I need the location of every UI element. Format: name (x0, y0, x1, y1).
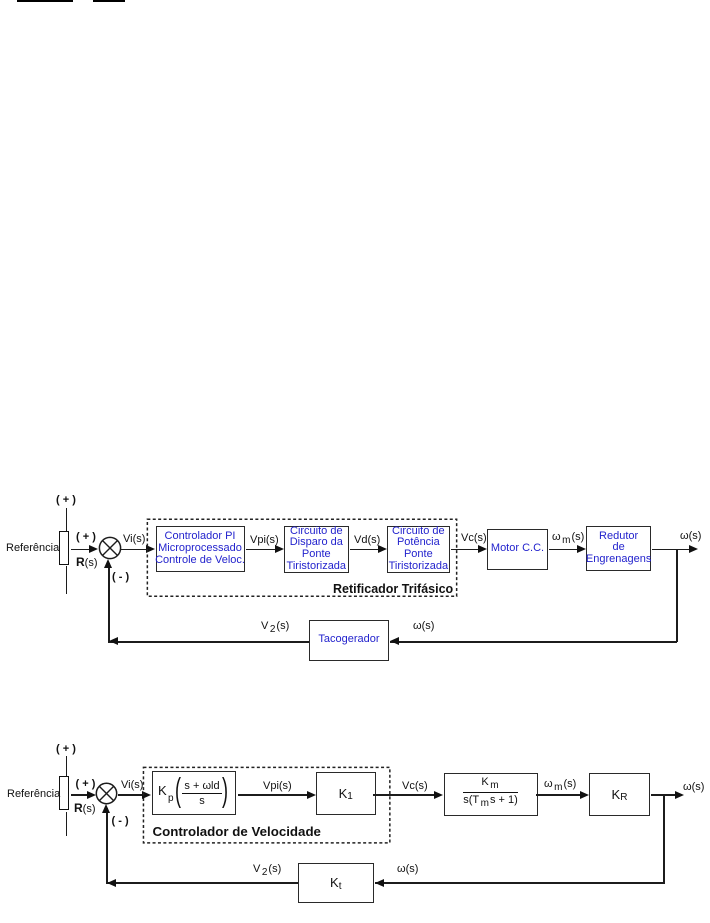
block Circuito Potencia D1 (387, 526, 451, 573)
label Referência D1 (6, 543, 59, 554)
summing junction D1 (98, 536, 122, 560)
potentiometer D2 (59, 776, 69, 810)
label R(s) D2 (74, 803, 96, 815)
label V2(s) D1 (261, 621, 289, 635)
label ( - ) D2 (112, 816, 129, 827)
label Retificador Trifasico D1 (333, 584, 453, 595)
wire sum to Kp D2 (118, 794, 144, 796)
wire feedback horizontal left D1 (108, 641, 309, 643)
wire feedback horizontal left D2 (106, 882, 298, 884)
block K1 D2 (316, 772, 377, 816)
label w(s) output D2 (683, 782, 704, 793)
wire sum to block1 D1 (121, 549, 147, 551)
potentiometer D1 (59, 531, 69, 565)
wire Kp-K1 D2 (238, 794, 311, 796)
wire Km-KR D2 (536, 794, 581, 796)
wire feedback horizontal right D1 (390, 641, 677, 643)
label Vpi(s) D1 (250, 535, 279, 546)
label ( + ) D2 (76, 779, 96, 790)
label Referência D2 (7, 789, 60, 800)
wire block3-motor D1 (451, 549, 478, 551)
wire feedback vertical left D2 (106, 808, 108, 883)
label Vi(s) D2 (121, 780, 143, 791)
label w(s) feedback D1 (413, 621, 434, 632)
block Controlador PI D1 (156, 526, 245, 572)
wire feedback horizontal right D2 (375, 882, 665, 884)
label (+) top D2 (56, 744, 76, 755)
wire feedback vertical right D2 (663, 794, 665, 883)
label w(s) output D1 (680, 531, 701, 542)
block Tacogerador D1 (309, 620, 389, 661)
top underline bar 2 (93, 0, 125, 2)
label V2(s) D2 (253, 864, 281, 878)
label Vc(s) D1 (461, 533, 487, 544)
label (+) top D1 (56, 495, 76, 506)
label wm(s) D2 (544, 779, 576, 793)
label Vd(s) D1 (354, 535, 380, 546)
label ( - ) D1 (112, 572, 129, 583)
wire pot top D2 (66, 756, 68, 777)
label R(s) D1 (76, 557, 98, 569)
label ( + ) D1 (76, 532, 96, 543)
wire pot bottom D1 (66, 566, 68, 594)
label w(s) feedback D2 (397, 864, 418, 875)
label Controlador de Velocidade D2 (153, 826, 321, 837)
wire pot top D1 (66, 508, 68, 531)
wire output D2 (651, 794, 675, 796)
label Vpi(s) D2 (263, 781, 292, 792)
block Kt D2 (298, 863, 375, 904)
dashed box Controlador Velocidade D2 (142, 766, 392, 845)
summing junction D2 (95, 782, 118, 805)
wire R(s) arrow D2 (71, 794, 89, 796)
wire pot bottom D2 (66, 812, 68, 837)
wire block1-block2 D1 (246, 549, 277, 551)
wire output D1 (652, 549, 689, 551)
label wm(s) D1 (552, 532, 584, 546)
wire feedback vertical right D1 (676, 549, 678, 642)
block Circuito Disparo D1 (284, 526, 349, 573)
block KR D2 (589, 773, 650, 816)
label Vc(s) D2 (402, 781, 428, 792)
wire R(s) arrow D1 (71, 549, 92, 551)
wire feedback vertical left D1 (108, 563, 110, 642)
block Redutor D1 (586, 526, 651, 571)
block Motor CC D1 (487, 529, 548, 571)
wire motor-redutor D1 (549, 549, 577, 551)
wire block2-block3 D1 (350, 549, 379, 551)
block Kp D2 (152, 771, 237, 816)
top underline bar 1 (17, 0, 73, 2)
label Vi(s) D1 (123, 534, 145, 545)
dashed box Retificador D1 (146, 518, 459, 598)
block Km transfer function D2 (444, 773, 538, 816)
wire K1-Km D2 (373, 794, 435, 796)
